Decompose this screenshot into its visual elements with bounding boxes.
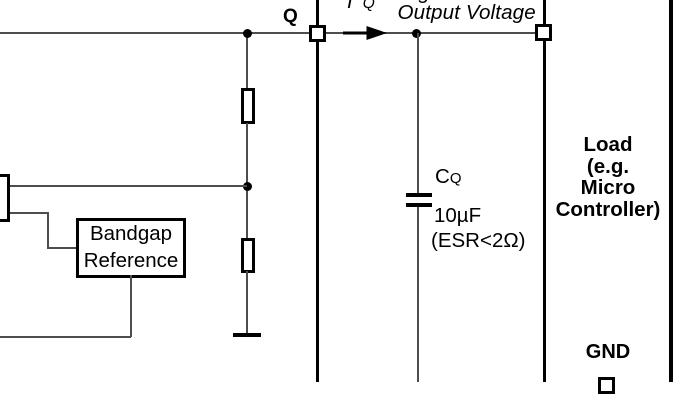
op-amp U1 (error amplifier box, cut off at left edge)	[0, 174, 10, 222]
label: ESR	[431, 229, 526, 253]
wire: amplifier output to feedback node	[10, 185, 247, 187]
label: Regulated (cut off, descender of g visible)	[419, 0, 430, 5]
capacitor CQ plate bottom	[406, 203, 433, 207]
wire: R1 bottom to feedback node	[246, 123, 248, 186]
label: Q	[283, 6, 298, 28]
load block right edge	[669, 0, 673, 382]
label: 10uF	[434, 204, 481, 228]
label: CQ	[435, 165, 461, 189]
resistor R2	[241, 238, 255, 273]
wire: R2 bottom to ground	[246, 271, 248, 333]
terminal: load GND pin	[598, 377, 615, 394]
wire: output rail between Q terminal and arrow	[326, 32, 346, 34]
current arrow IQ	[330, 20, 400, 46]
terminal Q (output pin)	[309, 25, 326, 42]
wire: divider vertical upper (node to resistor R1)	[246, 33, 248, 89]
label: IQ	[347, 0, 375, 14]
wire: bandgap to amplifier horizontal upper	[10, 212, 49, 214]
label: Bandgap Reference	[76, 220, 186, 275]
node: feedback junction dot	[243, 182, 252, 191]
wire: bandgap to amplifier horizontal lower	[47, 247, 77, 249]
wire: bandgap ground horizontal to left edge	[0, 336, 131, 338]
load block left edge	[543, 0, 546, 382]
regulator block right edge	[316, 0, 320, 382]
label: GND	[544, 341, 672, 364]
ground	[233, 333, 261, 337]
resistor R1	[241, 88, 255, 124]
terminal: load supply pin	[535, 24, 552, 41]
label: Output Voltage	[398, 1, 536, 25]
node: divider tap junction dot	[243, 29, 252, 38]
wire: bandgap to amplifier vertical	[47, 212, 49, 249]
wire: feedback node to resistor R2	[246, 186, 248, 239]
wire: main output rail left segment	[0, 32, 309, 34]
label: Load (e.g. Micro Controller)	[544, 134, 672, 221]
bandgap reference block	[76, 218, 186, 278]
wire: capacitor branch upper	[417, 33, 419, 193]
wire: output rail from arrow to load terminal	[384, 32, 536, 34]
capacitor CQ plate top	[406, 193, 433, 197]
wire: capacitor branch lower	[417, 207, 419, 382]
node: output junction dot	[412, 29, 421, 38]
wire: bandgap ground vertical	[130, 275, 132, 337]
